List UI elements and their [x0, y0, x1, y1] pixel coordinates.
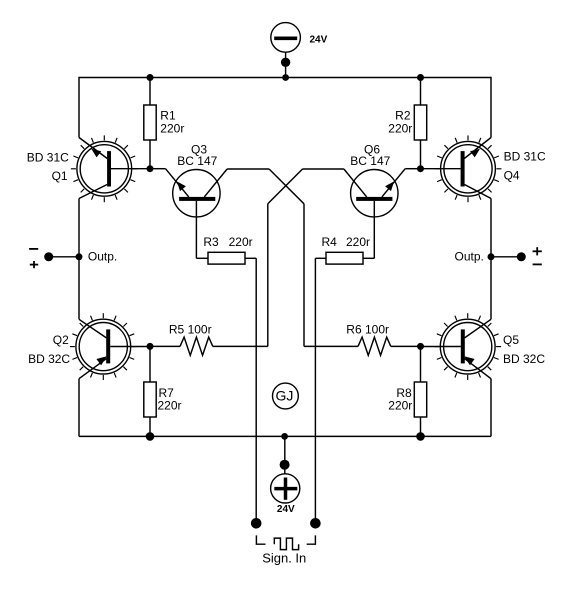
svg-text:Q4: Q4: [504, 168, 520, 182]
wire: Q3 emitter to Q1 base junction: [150, 169, 189, 197]
signal input square wave symbol: [274, 538, 298, 550]
signal input right bracket: [307, 535, 316, 544]
resistor R8 220r: [388, 346, 426, 436]
wire: left rail middle (Q1 collector / output / Q2 collector): [78, 199, 80, 320]
svg-text:Sign. In: Sign. In: [262, 551, 306, 566]
junction: R7 to bottom rail: [146, 432, 155, 441]
signal input left bracket: [256, 535, 265, 544]
svg-text:220r: 220r: [388, 398, 412, 412]
svg-text:BD 31C: BD 31C: [27, 151, 69, 165]
svg-text:220r: 220r: [229, 235, 253, 249]
junction: right output on right rail: [488, 253, 495, 260]
designer monogram GJ: [273, 383, 299, 409]
junction: Q2 base / R5 / R7: [147, 343, 154, 350]
transistor Q6 BC 147 (NPN driver, right): [351, 170, 398, 259]
svg-text:R5 100r: R5 100r: [169, 322, 212, 336]
resistor R1 220r: [144, 74, 185, 169]
transistor Q3 BC 147 (NPN driver, left): [173, 170, 220, 259]
24V supply source V2 (bottom, positive terminal): [271, 433, 300, 515]
svg-text:220r: 220r: [388, 122, 412, 136]
wire: right rail lower (Q5 emitter to bottom rail): [490, 379, 492, 437]
svg-text:BC 147: BC 147: [350, 154, 390, 168]
svg-text:Q5: Q5: [503, 333, 519, 347]
svg-text:24V: 24V: [310, 34, 328, 45]
resistor R3 220r (Q3 base to signal input): [196, 235, 256, 264]
svg-text:BD 32C: BD 32C: [28, 352, 70, 366]
junction: Q1 base / R1 / wire to Q3: [147, 165, 154, 172]
junction: Q5 base / R6 / R8: [417, 343, 424, 350]
svg-text:R6 100r: R6 100r: [346, 322, 389, 336]
junction: R8 to bottom rail: [416, 432, 425, 441]
junction: V1 to top rail: [282, 74, 289, 81]
svg-text:R2: R2: [395, 109, 411, 123]
svg-text:R4: R4: [322, 235, 338, 249]
svg-text:R3: R3: [203, 235, 219, 249]
junction: Q4 base / R2 / wire to Q6: [417, 165, 424, 172]
junction: left output on left rail: [76, 253, 83, 260]
wire: right rail upper (Q4 emitter to top rail): [490, 77, 492, 138]
wire: Q3 collector cross-coupling to right side (R6 node): [204, 169, 304, 346]
svg-text:BC 147: BC 147: [177, 154, 217, 168]
svg-text:220r: 220r: [160, 122, 184, 136]
svg-text:BD 31C: BD 31C: [504, 149, 546, 163]
wire: R3 to left signal input terminal: [255, 258, 257, 523]
transistor Q5 BD 32C (PNP power, bottom-right): [421, 313, 502, 380]
left signal input terminal: [251, 518, 262, 529]
svg-text:GJ: GJ: [275, 388, 293, 404]
wire: top supply rail: [79, 77, 491, 79]
transistor Q2 BD 32C (PNP power, bottom-left): [70, 313, 150, 380]
svg-text:220r: 220r: [158, 398, 182, 412]
left output terminal (Outp.): [29, 249, 117, 268]
wire: R4 to right signal input terminal: [314, 258, 316, 523]
resistor R5 100r: [150, 322, 268, 355]
svg-text:R1: R1: [160, 109, 176, 123]
resistor R6 100r: [304, 322, 421, 355]
wire: Q6 collector cross-coupling to left side (R5 node): [268, 169, 367, 346]
resistor R7 220r: [144, 346, 182, 436]
24V supply source V1 (top, negative terminal): [271, 23, 328, 78]
wire: right rail middle (Q4 collector / output / Q5 collector): [490, 199, 492, 320]
transistor Q4 BD 31C (NPN power, top-right): [421, 135, 502, 202]
svg-text:BD 32C: BD 32C: [503, 352, 545, 366]
wire: bottom supply rail: [79, 435, 491, 437]
wire: left rail upper (Q1 emitter to top rail): [78, 77, 80, 138]
svg-text:Q2: Q2: [53, 333, 69, 347]
svg-text:Outp.: Outp.: [455, 249, 484, 263]
right output terminal (Outp.): [455, 247, 542, 264]
right signal input terminal: [310, 518, 321, 529]
resistor R4 220r (Q6 base to signal input): [315, 235, 374, 264]
svg-text:24V: 24V: [277, 504, 295, 515]
wire: left rail lower (Q2 emitter to bottom rail): [78, 379, 80, 437]
svg-text:Outp.: Outp.: [88, 249, 117, 263]
svg-text:220r: 220r: [346, 235, 370, 249]
resistor R2 220r: [388, 74, 426, 169]
wire: Q6 emitter to Q4 base junction: [382, 169, 421, 197]
svg-text:Q1: Q1: [52, 169, 68, 183]
transistor Q1 BD 31C (NPN power, top-left): [71, 135, 150, 202]
